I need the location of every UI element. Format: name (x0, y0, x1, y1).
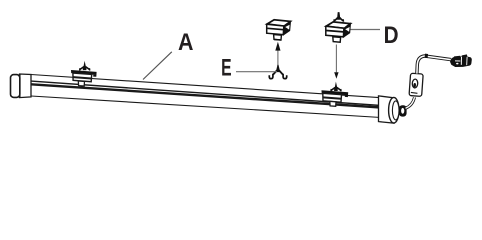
up arrow from clip E to bracket (275, 42, 280, 66)
tube A body lines (31, 75, 381, 118)
leader line for D (351, 29, 381, 31)
inline switch (409, 73, 423, 96)
bracket with spring D (exploded) (326, 12, 351, 42)
cord from switch to plug (417, 56, 451, 74)
tube right end cap (379, 96, 400, 123)
svg-text:D: D (384, 21, 399, 48)
leader line for E (236, 71, 277, 73)
cord from cap to switch (406, 97, 415, 108)
svg-text:E: E (221, 55, 231, 81)
leader line for A (143, 52, 172, 80)
svg-text:A: A (178, 29, 193, 55)
down arrow from D bracket to tube clip (334, 45, 338, 79)
spring clip E glyph (269, 65, 286, 79)
cord connector nub on right cap (399, 105, 407, 116)
clip on tube (right) (322, 82, 349, 107)
clip on tube (left) (71, 61, 97, 86)
spring of D (337, 12, 340, 20)
mounting bracket (exploded, above E) (267, 20, 291, 40)
tube left end cap (11, 74, 32, 98)
spring of right clip (335, 82, 338, 89)
power plug (450, 54, 472, 67)
spring of left clip (83, 61, 86, 68)
